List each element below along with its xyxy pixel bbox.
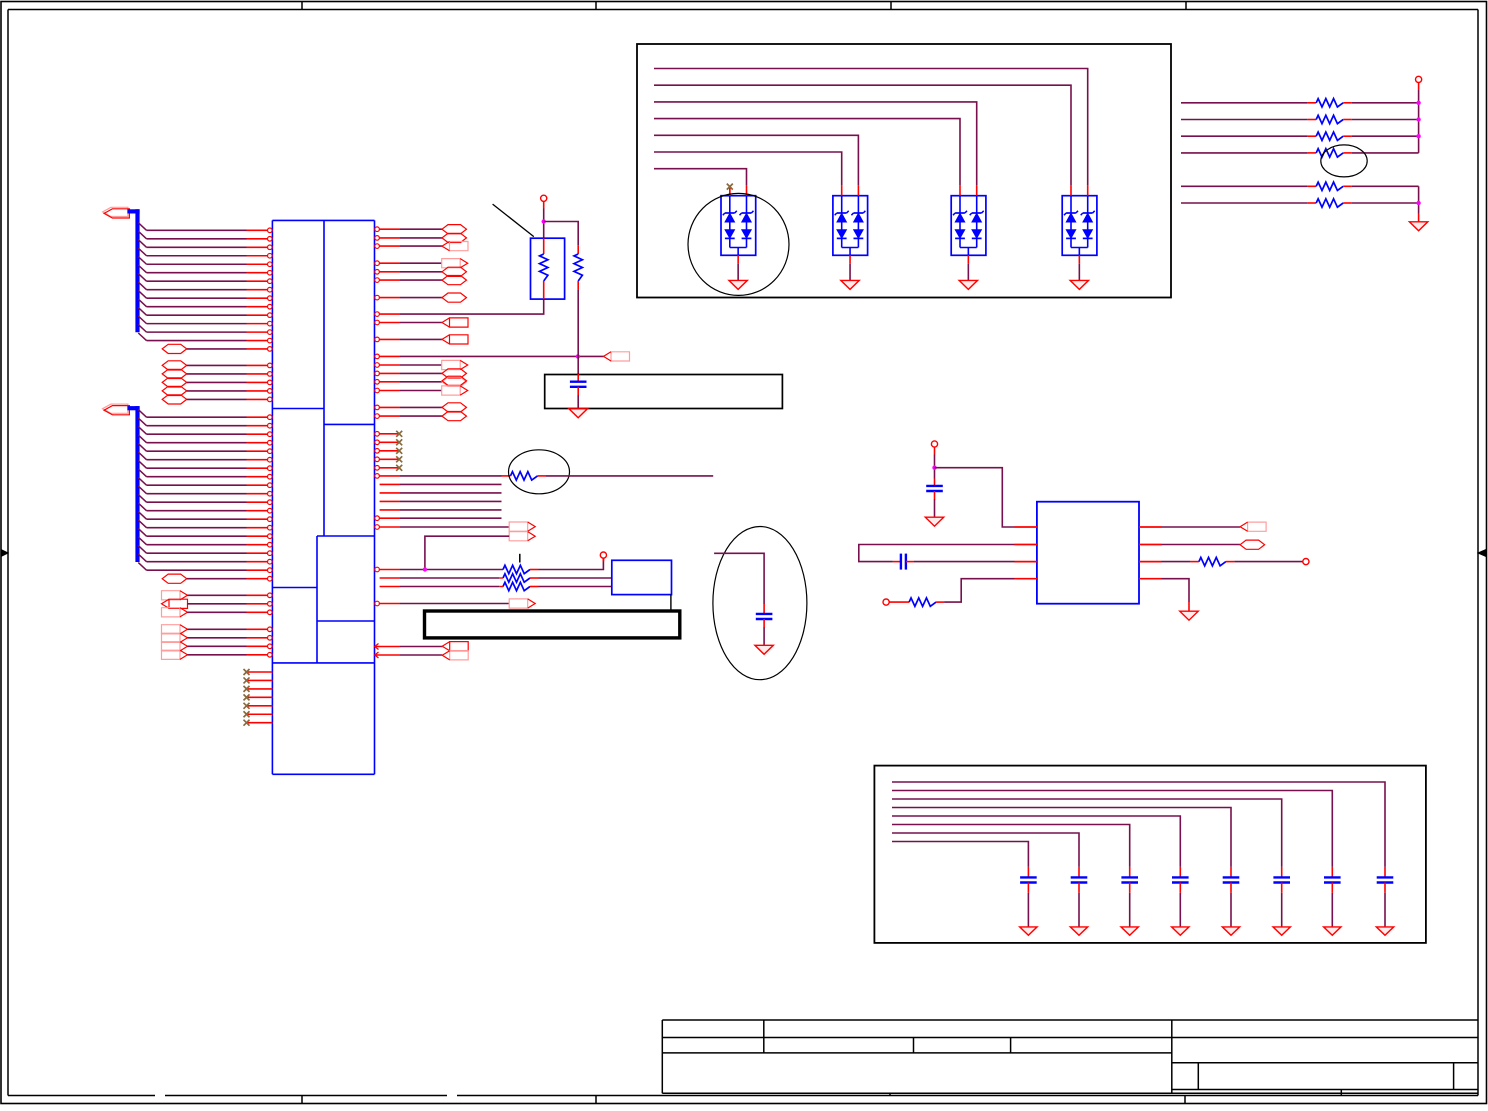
wire [187,398,247,400]
pin (arrow) [375,644,379,650]
wire [1181,119,1308,121]
off-page connector (left arrow pale) [450,242,469,251]
off-page connector (right arrow) [442,386,461,395]
power symbol P5 [1303,559,1309,565]
wire [147,272,247,274]
pin [1139,544,1162,546]
wire [187,628,246,630]
no-connect pin [375,466,380,471]
resistor RP1b [577,246,579,254]
pin [247,314,268,316]
wire [654,102,977,185]
wire [1331,893,1333,927]
wire [1179,893,1181,927]
pin [247,544,268,546]
wire [147,323,247,325]
wire [654,119,960,186]
wire [577,395,579,409]
off-page connector (right arrow) [162,642,181,651]
connector U1 section B outline [324,423,375,425]
pin [247,246,268,248]
pin (arrow) [375,652,379,658]
pin [247,280,268,282]
pin [247,433,268,435]
wire [763,627,765,645]
ground [1222,927,1239,935]
bus entry [138,240,146,248]
pin [247,229,268,231]
connector U1 section H outline [272,773,374,775]
resistor RP1a [543,238,545,254]
diode pack D2 [833,185,868,255]
bus B2 [127,406,139,410]
pin [375,244,380,249]
connector port (hex) [442,412,467,421]
ground [1172,927,1189,935]
wire [892,782,1385,867]
pin [375,312,380,317]
wire [1162,544,1241,546]
wire [577,356,579,374]
wire [187,348,247,350]
wire [147,501,247,503]
wire net W3 [399,569,503,571]
connector U1 section F/G outline [272,662,374,664]
bus entry [138,274,146,282]
no-connect pin [375,432,380,437]
ground [1020,927,1037,935]
pin [247,340,268,342]
connector port (hex) [162,378,187,387]
no-connect [729,188,731,196]
pin [247,569,268,571]
annotation ellipse [1321,145,1367,177]
pin [375,405,380,410]
wire [892,842,1028,867]
connector port (hex) [162,369,187,378]
pin [247,289,268,291]
pin [247,425,268,427]
wire [1352,135,1419,137]
wire [147,518,247,520]
pin [375,363,380,368]
capacitor C1 [577,374,579,382]
connector U1 section A outline [272,219,374,221]
resistor [1308,152,1317,154]
wire [147,340,247,342]
pin [1078,255,1080,263]
pin [934,447,936,454]
pin [380,586,400,588]
power pin [602,558,604,561]
wire [1162,526,1241,528]
wire [147,425,247,427]
connector port (hex) [442,225,467,234]
wire [399,646,442,648]
no-connect pin [247,705,273,707]
wire [187,645,246,647]
bus entry [138,461,146,469]
pin [1139,561,1162,563]
wire [147,255,247,257]
wire [654,169,747,186]
wire [187,637,246,639]
ground [569,409,587,418]
wire [399,475,501,477]
pin [1139,526,1162,528]
off-page connector (left arrow) [450,651,469,660]
wire branch [544,222,579,246]
pin [247,348,268,350]
wire [187,611,246,613]
wire [147,527,247,529]
wire [1181,102,1308,104]
pin [247,263,268,265]
connector port (hex) [442,403,467,412]
wire [892,816,1180,867]
connector port (hex) [162,386,187,395]
wire [1352,119,1419,121]
pin [247,611,268,613]
ground [1376,927,1393,935]
wire [147,467,247,469]
wire [1281,893,1283,927]
bus entry [138,563,146,571]
wire [147,314,247,316]
capacitor C9 [1179,867,1181,878]
border inner frame [8,9,1478,11]
pin [247,459,268,461]
bus entry [138,452,146,460]
bus entry [138,554,146,562]
pin [375,388,380,393]
wire [147,544,247,546]
connector port (hex) [442,369,467,378]
wire [1181,152,1308,154]
bus entry [138,427,146,435]
pin [247,381,268,383]
pin [1015,578,1037,580]
off-page connector (left arrow) [450,318,469,327]
bus entry [138,223,146,231]
pin [375,354,380,359]
off-page connector (left arrow) [450,642,469,651]
wire [577,289,579,356]
wire [914,561,1015,563]
capacitor C7 [1281,867,1283,878]
pin [1015,544,1037,546]
wire [147,229,247,231]
wire [399,526,509,528]
pin [247,527,268,529]
wire [399,372,442,374]
wire [1234,561,1302,563]
bus B1 [127,209,139,213]
wire [967,264,969,281]
pin [247,364,268,366]
diode pack D3 [951,185,986,255]
pin [247,628,268,630]
annotation circle around D1 [688,193,789,295]
wire vertical [1418,90,1420,153]
wire net RS2 [399,355,603,357]
off-page connector (left arrow pale) [611,352,630,361]
capacitor C8 [1230,867,1232,878]
bus entry [138,248,146,256]
resistor R10 [1190,561,1199,563]
ground [841,280,859,289]
connector port (hex) [1240,540,1265,549]
wire [1384,893,1386,927]
junction [542,219,546,223]
bus entry [138,495,146,503]
pin [247,578,268,580]
wire [944,579,1014,602]
pin [543,201,545,208]
wire [892,799,1282,867]
wire [147,280,247,282]
no-connect pin [247,671,273,673]
bus entry [138,469,146,477]
capacitor C10 [1129,867,1131,878]
junction [576,354,580,358]
title block [662,1020,1478,1096]
off-page connector (right arrow pale) [509,532,528,541]
pin [247,603,268,605]
resistor [1308,119,1317,121]
pin [849,255,851,263]
wire [147,297,247,299]
wire [147,493,247,495]
pin [375,601,380,606]
wire [1181,185,1308,187]
pin [247,535,268,537]
pin [247,645,268,647]
bus entry [138,231,146,239]
pin [375,236,380,241]
wire [187,594,246,596]
wire [892,825,1130,867]
wire [147,552,247,554]
off-page connector (right arrow) [162,625,181,634]
pin [967,255,969,263]
no-connect pin [375,440,380,445]
pin [1139,578,1162,580]
pin [375,295,380,300]
connector port (hex) [162,574,187,583]
pin [1015,526,1037,528]
resistor R7 [503,574,530,582]
border center arrow left [1,550,8,557]
pin [375,371,380,376]
bus entry [138,325,146,333]
no-connect pin [247,713,273,715]
wire [147,289,247,291]
ground [1409,222,1427,231]
pin [737,255,739,263]
wire [399,245,442,247]
bus entry [138,257,146,265]
wire [147,450,247,452]
junction [932,466,936,470]
bus entry [138,537,146,545]
pin [247,373,268,375]
capacitor C5 [1384,867,1386,878]
pin [380,483,400,485]
power symbol P3 [931,441,937,447]
wire [399,364,442,366]
connector port (hex) [442,276,467,285]
wire [147,569,247,571]
pin [247,493,268,495]
wire [187,603,246,605]
annotation frame (bold rect) [425,611,680,638]
pin [247,476,268,478]
wire [539,558,604,569]
ground [1273,927,1290,935]
wire [934,499,936,517]
ground [755,645,773,654]
wire [147,459,247,461]
bus entry [138,546,146,554]
wire [1078,893,1080,927]
wire [1078,264,1080,281]
wire [399,603,509,605]
connector port (hex) [162,395,187,404]
wire [399,381,442,383]
wire [399,338,442,340]
wire [187,364,247,366]
wire [399,322,442,324]
wire [1230,893,1232,927]
bus entry [138,299,146,307]
power symbol P4 [883,599,889,605]
capacitor C11 [1078,867,1080,878]
off-page connector (left arrow) [1248,522,1267,531]
connector port (hex) [442,267,467,276]
power symbol P1 [541,195,547,201]
junction [1416,201,1420,205]
bus entry [138,478,146,486]
wire [399,509,501,511]
pin [247,398,268,400]
capacitor C3 [934,479,936,486]
ground [925,517,943,526]
bus entry [138,418,146,426]
annotation box (caps block frame) [874,766,1426,943]
wire [1352,185,1419,187]
wire [147,263,247,265]
pin [247,467,268,469]
wire [187,578,247,580]
wire to RP1 [399,299,544,314]
pin [247,510,268,512]
pin [247,518,268,520]
connector port (hex) [442,293,467,302]
bus entry [138,316,146,324]
pin [375,516,380,521]
bus entry [138,333,146,341]
pin [247,272,268,274]
wire [147,331,247,333]
off-page connector bus2 [103,404,128,413]
connector port (hex) [442,233,467,242]
wire [147,510,247,512]
pin [375,380,380,385]
resistor pack RP1 box [531,238,565,299]
no-connect pin [247,696,273,698]
pin [247,255,268,257]
wire [1181,202,1308,204]
bus entry [138,291,146,299]
wire [654,135,858,185]
pin [1188,602,1190,611]
no-connect pin [247,722,273,724]
resistor [1308,185,1317,187]
component U3 [1037,502,1139,604]
wire [546,475,713,477]
no-connect pin [247,688,273,690]
wire [147,416,247,418]
pin [380,509,400,511]
bus entry [138,444,146,452]
off-page connector (right arrow) [442,360,461,369]
pin [247,306,268,308]
wire [654,152,842,185]
connector U1 section C outline [272,587,317,589]
pin [247,501,268,503]
off-page connector (right arrow) [162,650,181,659]
wire vertical [1418,186,1420,213]
wire [1162,579,1190,602]
wire [399,654,442,656]
off-page connector (right arrow) [162,591,181,600]
wire [399,262,442,264]
pin [247,637,268,639]
wire [892,791,1332,867]
wire [935,468,1015,527]
wire [399,586,499,588]
junction [1416,101,1420,105]
wire [399,279,442,281]
annotation ellipse [713,527,807,680]
bus entry [138,282,146,290]
pin [1015,561,1037,563]
pin [247,442,268,444]
wire loop [859,545,1015,562]
pin [247,552,268,554]
ground [729,280,747,289]
resistor R5 [502,475,511,477]
capacitor C6 [1331,867,1333,878]
pin [380,492,400,494]
wire [849,264,851,281]
pin [247,484,268,486]
wire [399,228,442,230]
no-connect pin [375,449,380,454]
connector port (hex) [162,344,187,353]
ground [1180,611,1198,620]
power symbol P2 [1416,76,1422,82]
pin [375,320,380,325]
wire [654,69,1088,186]
wire [399,390,442,392]
connector port (hex) [162,361,187,370]
pin [375,567,380,572]
pin [247,416,268,418]
bus entry [138,520,146,528]
pin [247,654,268,656]
